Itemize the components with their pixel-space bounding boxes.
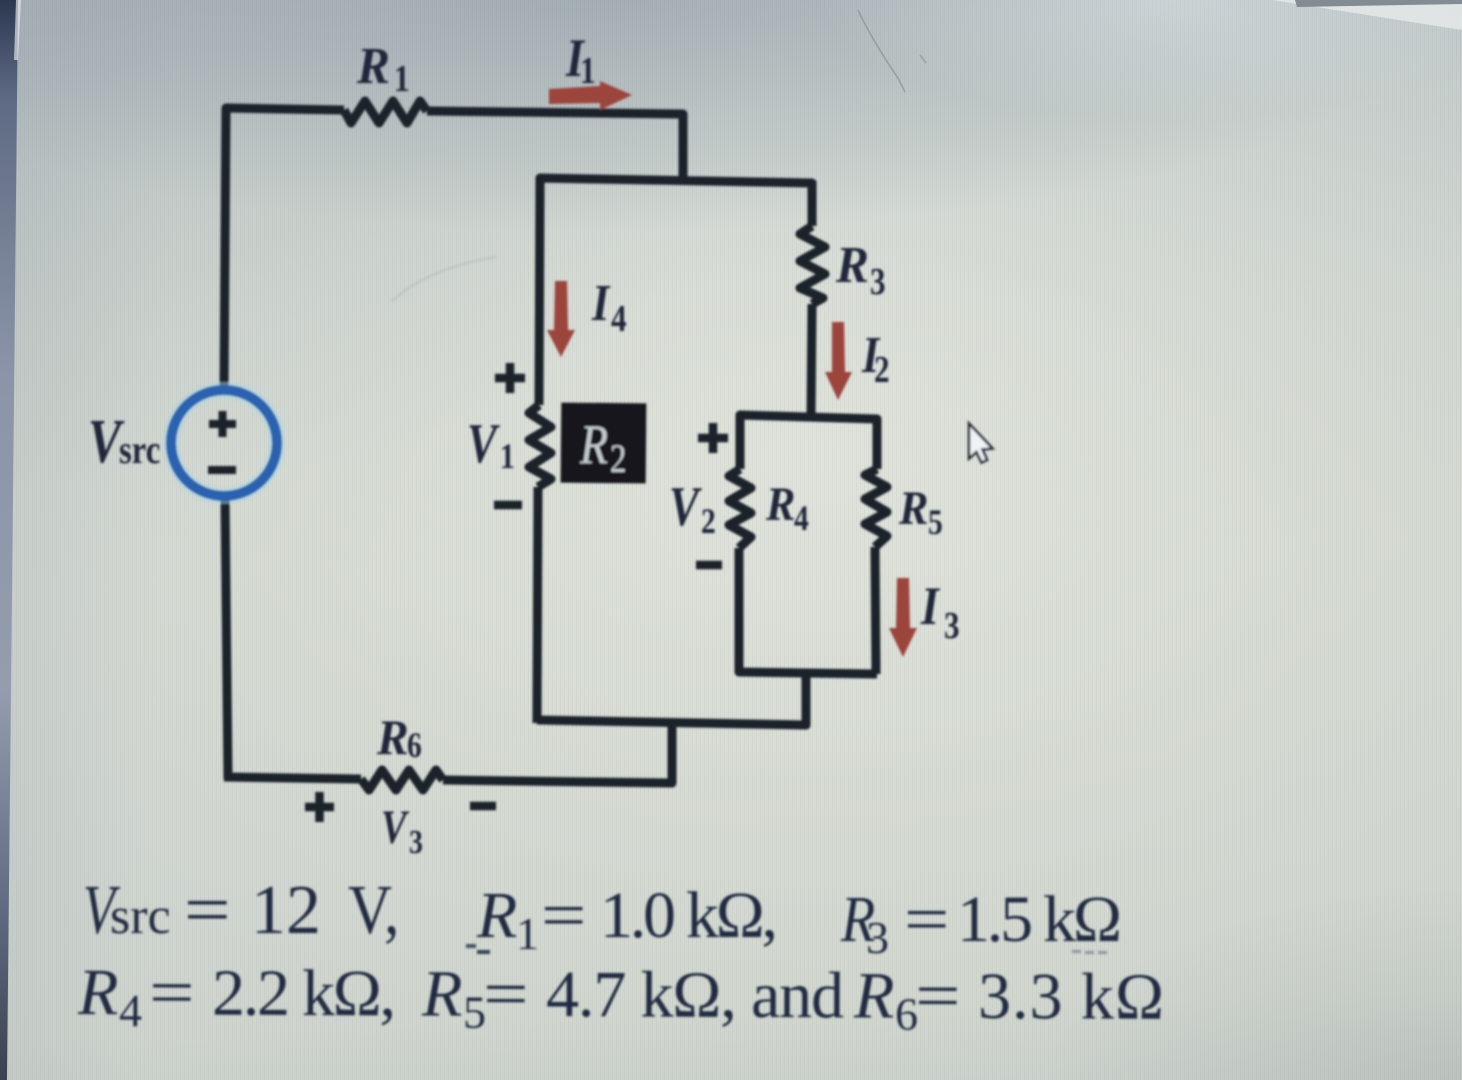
equation line 1: Vsrc = 12 V, xyxy=(83,871,399,949)
svg-text:3: 3 xyxy=(870,260,886,303)
minus sign of V1 xyxy=(494,501,522,510)
current arrow I1 xyxy=(549,81,632,110)
minus sign of V3 xyxy=(470,802,496,811)
plus sign of V3 xyxy=(305,792,496,822)
screen bezel: left edge strip xyxy=(0,0,18,1080)
wire: middle box left upper segment xyxy=(539,180,540,405)
scratch: faint diagonal hair at top right xyxy=(858,10,905,92)
wire: middle box bottom with junction up to inner box xyxy=(537,670,806,725)
svg-text:R: R xyxy=(765,477,795,530)
equation line 1: R3 = 1.5 kOhm xyxy=(840,882,1122,963)
svg-text:R: R xyxy=(421,957,463,1030)
voltage source Vsrc halo xyxy=(171,390,277,496)
voltage source minus sign xyxy=(208,466,236,474)
resistor R2 xyxy=(529,405,551,487)
svg-text:I: I xyxy=(920,576,940,636)
svg-text:4: 4 xyxy=(794,499,809,538)
resistor R3 xyxy=(800,226,825,304)
svg-text:R: R xyxy=(898,481,928,534)
voltage source Vsrc circle xyxy=(171,390,277,496)
svg-text:2: 2 xyxy=(701,502,716,541)
svg-text:src: src xyxy=(110,888,171,945)
wire: R3 branch upper segment xyxy=(808,181,817,226)
svg-text:12: 12 xyxy=(251,872,321,949)
svg-text:R: R xyxy=(853,959,895,1032)
resistor R6 xyxy=(361,770,443,790)
svg-text:1: 1 xyxy=(394,57,410,100)
stray pencil dash under R1 eq xyxy=(477,950,490,954)
equation line 1: R1 = 1.0 kOhm, xyxy=(476,878,778,959)
stray dashes under 1.5 kOhm xyxy=(1072,950,1107,954)
screen bezel: top-right thin gray line xyxy=(1295,0,1462,7)
resistor R4 xyxy=(729,469,751,548)
svg-text:=: = xyxy=(915,958,961,1032)
svg-text:R: R xyxy=(835,236,869,293)
wire: inner box left lower segment xyxy=(735,548,744,672)
wire: inner box top xyxy=(740,415,877,424)
svg-text:5: 5 xyxy=(928,503,943,542)
svg-text:1.0 kΩ,: 1.0 kΩ, xyxy=(600,879,778,952)
svg-text:2: 2 xyxy=(610,436,626,481)
screen glare: top-right white wedge xyxy=(1272,0,1462,30)
svg-text:R: R xyxy=(579,414,608,476)
svg-text:3.3 kΩ: 3.3 kΩ xyxy=(978,960,1164,1034)
current arrow I2 xyxy=(825,322,852,400)
svg-text:I: I xyxy=(591,275,611,332)
svg-text:=: = xyxy=(541,878,586,952)
svg-text:V: V xyxy=(381,801,409,854)
svg-text:R: R xyxy=(476,879,517,952)
svg-text:3: 3 xyxy=(944,604,960,647)
svg-text:=: = xyxy=(483,957,529,1031)
svg-text:1.5 kΩ: 1.5 kΩ xyxy=(957,883,1122,956)
svg-text:4.7 kΩ, and: 4.7 kΩ, and xyxy=(546,958,844,1032)
wire: top left segment from node A to R1 xyxy=(226,108,344,113)
voltage source plus sign xyxy=(208,411,236,470)
highlighted box around R2 label xyxy=(561,403,647,484)
svg-text:1: 1 xyxy=(580,49,596,92)
svg-text:2.2 kΩ,: 2.2 kΩ, xyxy=(212,957,396,1031)
svg-text:2: 2 xyxy=(874,348,890,391)
svg-text:=: = xyxy=(904,882,949,956)
wire: source bottom to bottom-left corner xyxy=(225,495,228,779)
screen bezel: white sliver along left edge top xyxy=(14,0,21,60)
wire: top right segment from R1 to middle box top xyxy=(427,111,683,181)
svg-text:R: R xyxy=(356,37,390,94)
svg-text:4: 4 xyxy=(611,297,627,340)
svg-text:=: = xyxy=(184,871,231,949)
svg-text:3: 3 xyxy=(409,822,423,860)
svg-text:3: 3 xyxy=(866,912,889,963)
svg-text:V: V xyxy=(669,475,703,537)
resistor R5 xyxy=(865,469,887,547)
wire: left vertical from node A down to source xyxy=(224,110,226,392)
wire: bottom left segment to R6 xyxy=(224,777,361,779)
wire: inner box right upper segment xyxy=(873,421,882,469)
equation line 2: R4 = 2.2 kOhm, R5 = 4.7 kOhm, and R6 = 3.3 kOhm xyxy=(77,955,1164,1041)
mouse cursor xyxy=(969,424,993,463)
svg-text:src: src xyxy=(119,427,160,472)
wire: inner box left upper segment xyxy=(736,417,745,469)
resistor R1 xyxy=(344,101,427,123)
svg-text:1: 1 xyxy=(500,437,515,476)
svg-text:=: = xyxy=(149,955,195,1029)
plus sign of V1 xyxy=(494,363,525,505)
wire: R3 branch lower segment to inner box top xyxy=(811,304,812,418)
scratch: faint hair curve above R2 area xyxy=(392,257,496,301)
wire: middle box left lower segment xyxy=(537,487,538,723)
svg-text:1: 1 xyxy=(516,908,539,959)
plus sign of V2 xyxy=(696,423,728,565)
svg-text:V,: V, xyxy=(348,872,399,949)
svg-text:R: R xyxy=(376,710,409,765)
stray pencil dash above R5 eq xyxy=(466,944,476,948)
wire: bottom right segment from R6 up to middle box bottom xyxy=(443,722,672,783)
current arrow I3 xyxy=(889,578,917,657)
svg-text:R: R xyxy=(77,956,119,1029)
wire: middle box top xyxy=(540,178,812,188)
wire: inner box bottom xyxy=(739,667,877,674)
current arrow I4 xyxy=(547,281,575,357)
wire: inner box right lower segment xyxy=(875,547,876,674)
svg-text:6: 6 xyxy=(407,726,422,765)
svg-text:V: V xyxy=(467,412,501,474)
svg-text:4: 4 xyxy=(119,985,142,1036)
minus sign of V2 xyxy=(696,561,722,570)
